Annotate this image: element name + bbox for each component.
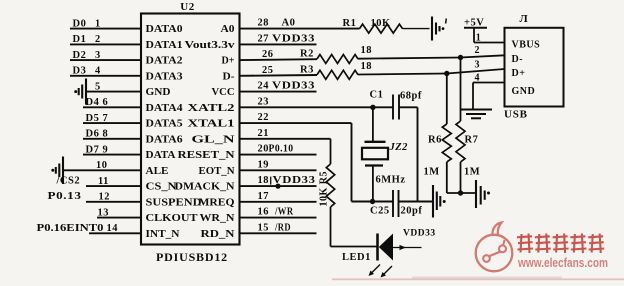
- svg-text:P0.13: P0.13: [48, 191, 82, 202]
- svg-text:2: 2: [475, 45, 481, 56]
- svg-text:/RD: /RD: [274, 222, 291, 233]
- svg-text:LED1: LED1: [342, 252, 371, 263]
- svg-text:/CS2: /CS2: [56, 176, 81, 187]
- svg-text:8: 8: [103, 129, 109, 140]
- svg-text:19: 19: [258, 159, 269, 170]
- svg-text:DMACK_N: DMACK_N: [175, 182, 236, 193]
- svg-text:DATA6: DATA6: [146, 134, 183, 145]
- svg-text:P0.16EINT0: P0.16EINT0: [37, 223, 104, 234]
- svg-text:D-: D-: [223, 71, 236, 82]
- svg-text:DATA2: DATA2: [146, 56, 183, 67]
- svg-text:5: 5: [95, 81, 101, 92]
- svg-text:D+: D+: [512, 68, 526, 79]
- svg-text:R6: R6: [428, 135, 442, 146]
- svg-text:18: 18: [258, 175, 269, 186]
- svg-text:20pf: 20pf: [401, 206, 423, 217]
- svg-text:PDIUSBD12: PDIUSBD12: [156, 250, 228, 264]
- svg-text:D6: D6: [86, 129, 100, 140]
- svg-text:6MHz: 6MHz: [376, 175, 406, 186]
- svg-text:17: 17: [258, 191, 269, 202]
- svg-text:XATL2: XATL2: [188, 103, 235, 114]
- svg-text:CS_N: CS_N: [146, 182, 178, 193]
- svg-text:USB: USB: [504, 109, 528, 121]
- svg-text:18: 18: [361, 61, 373, 72]
- svg-text:10K R5: 10K R5: [319, 171, 330, 207]
- svg-text:R2: R2: [300, 49, 314, 60]
- svg-text:13: 13: [98, 207, 109, 218]
- svg-text:7: 7: [103, 113, 109, 124]
- svg-text:XTAL1: XTAL1: [188, 119, 235, 130]
- svg-text:C1: C1: [370, 90, 384, 101]
- svg-text:2: 2: [95, 34, 101, 45]
- svg-text:D-: D-: [512, 54, 524, 65]
- svg-text:P0.10: P0.10: [269, 144, 294, 155]
- svg-text:U2: U2: [180, 1, 194, 13]
- svg-text:GND: GND: [512, 86, 536, 97]
- svg-text:D+: D+: [222, 56, 235, 67]
- svg-text:D4: D4: [86, 97, 100, 108]
- svg-text:22: 22: [258, 112, 269, 123]
- svg-text:Vout3.3v: Vout3.3v: [185, 40, 236, 51]
- svg-text:18: 18: [361, 45, 373, 56]
- svg-text:/WR: /WR: [274, 207, 293, 218]
- svg-text:EOT_N: EOT_N: [199, 166, 236, 177]
- svg-text:RESET_N: RESET_N: [178, 150, 236, 161]
- svg-text:DATA: DATA: [146, 150, 177, 161]
- svg-text:D1: D1: [73, 34, 87, 45]
- svg-text:D3: D3: [73, 66, 87, 77]
- svg-text:4: 4: [95, 66, 101, 77]
- svg-text:MREQ: MREQ: [199, 197, 235, 208]
- svg-text:11: 11: [98, 176, 109, 187]
- svg-text:VDD33: VDD33: [403, 229, 436, 239]
- svg-text:3: 3: [475, 60, 481, 71]
- svg-text:68pf: 68pf: [400, 91, 422, 102]
- svg-text:GND: GND: [146, 87, 171, 98]
- svg-text:GL_N: GL_N: [192, 134, 236, 145]
- svg-text:16: 16: [258, 207, 269, 218]
- svg-text:DATA3: DATA3: [146, 71, 183, 82]
- svg-text:25: 25: [262, 65, 273, 76]
- svg-text:26: 26: [262, 49, 273, 60]
- svg-text:3: 3: [95, 50, 101, 61]
- svg-text:23: 23: [258, 96, 269, 107]
- svg-text:D5: D5: [86, 113, 100, 124]
- svg-text:R7: R7: [465, 135, 479, 146]
- svg-text:6: 6: [103, 97, 109, 108]
- svg-text:10K: 10K: [371, 18, 392, 29]
- svg-text:21: 21: [258, 128, 269, 139]
- svg-text:C25: C25: [370, 206, 390, 217]
- svg-text:14: 14: [107, 223, 118, 234]
- svg-text:DATA4: DATA4: [146, 103, 183, 114]
- svg-text:Л: Л: [520, 13, 529, 25]
- svg-text:DATA0: DATA0: [146, 24, 183, 35]
- svg-text:A0: A0: [282, 18, 296, 29]
- svg-text:10: 10: [96, 160, 107, 171]
- svg-text:www.elecfans.com: www.elecfans.com: [517, 255, 608, 270]
- svg-text:WR_N: WR_N: [200, 213, 236, 224]
- svg-text:D7: D7: [86, 144, 100, 155]
- svg-text:D2: D2: [73, 50, 87, 61]
- svg-text:9: 9: [103, 144, 109, 155]
- svg-text:DATA1: DATA1: [146, 40, 183, 51]
- svg-text:JZ2: JZ2: [389, 142, 409, 153]
- svg-text:A0: A0: [221, 24, 235, 35]
- svg-text:R3: R3: [300, 64, 314, 75]
- svg-text:SUSPEND: SUSPEND: [146, 197, 202, 208]
- svg-text:VCC: VCC: [212, 87, 235, 98]
- svg-text:1: 1: [95, 18, 101, 29]
- svg-text:ALE: ALE: [146, 166, 169, 177]
- svg-text:INT_N: INT_N: [146, 229, 181, 240]
- svg-text:1: 1: [476, 33, 482, 44]
- svg-text:27: 27: [258, 33, 269, 44]
- svg-text:VDD33: VDD33: [272, 33, 315, 44]
- svg-text:28: 28: [258, 18, 269, 29]
- svg-text:12: 12: [99, 192, 110, 203]
- svg-text:1M: 1M: [464, 167, 480, 178]
- svg-text:1M: 1M: [424, 167, 440, 178]
- svg-text:CLKOUT: CLKOUT: [146, 213, 198, 224]
- svg-text:15: 15: [258, 222, 269, 233]
- svg-text:DATA5: DATA5: [146, 119, 183, 130]
- svg-text:RD_N: RD_N: [201, 229, 236, 240]
- svg-text:VBUS: VBUS: [512, 40, 541, 51]
- svg-text:20: 20: [258, 144, 269, 155]
- svg-text:R1: R1: [343, 18, 357, 29]
- svg-text:D0: D0: [73, 18, 87, 29]
- svg-text:24: 24: [258, 81, 269, 92]
- svg-text:VDD33: VDD33: [272, 81, 315, 92]
